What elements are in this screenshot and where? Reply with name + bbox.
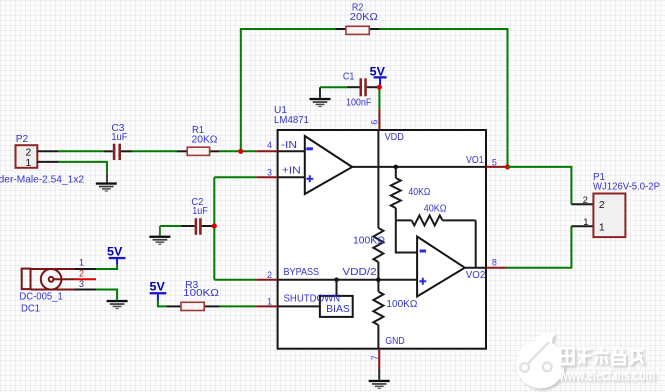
svg-text:1: 1 bbox=[267, 297, 272, 307]
wire 5V to R3 bbox=[158, 300, 166, 306]
pin 5 stub bbox=[486, 166, 505, 168]
wire R1 to junction bbox=[219, 150, 256, 152]
resistor R2 bbox=[336, 2, 380, 34]
wire: feedback top-right from R2 down to VO1 bbox=[380, 29, 508, 167]
pin 3 stub bbox=[256, 176, 277, 178]
wire R3 to SHUTDOWN bbox=[219, 305, 256, 307]
resistor 40K (vertical) bbox=[391, 167, 431, 221]
svg-text:VDD: VDD bbox=[385, 132, 404, 143]
svg-text:6: 6 bbox=[369, 120, 379, 125]
svg-text:5V: 5V bbox=[150, 281, 166, 294]
wire P2 pin2 to C3 bbox=[58, 150, 104, 152]
wire P2 pin1 down bbox=[58, 162, 107, 173]
svg-text:DC1: DC1 bbox=[21, 304, 40, 315]
capacitor C1 bbox=[320, 72, 378, 109]
BYPASS internal wire bbox=[278, 279, 418, 281]
svg-text:BIAS: BIAS bbox=[326, 304, 350, 315]
resistor 100K (upper) bbox=[353, 228, 385, 262]
resistor R3 bbox=[166, 280, 219, 311]
pin 3 lead bbox=[75, 289, 97, 291]
power 5V (DC1) bbox=[107, 246, 125, 265]
wire BIAS drop bbox=[336, 280, 338, 296]
node: C2 junction bbox=[212, 223, 217, 228]
ground (C1) bbox=[310, 87, 331, 107]
pin 1 stub bbox=[256, 305, 277, 307]
svg-text:www.elecfans.com: www.elecfans.com bbox=[559, 368, 655, 385]
wire pin3 to ground bbox=[96, 290, 117, 300]
wire: 5V node down to pin 6 bbox=[378, 87, 380, 109]
svg-text:1uF: 1uF bbox=[111, 132, 127, 143]
svg-text:40KΩ: 40KΩ bbox=[408, 187, 430, 198]
svg-text:1: 1 bbox=[26, 157, 32, 169]
node: C1/5V junction bbox=[377, 85, 382, 90]
svg-text:3: 3 bbox=[79, 279, 84, 289]
svg-text:20KΩ: 20KΩ bbox=[350, 12, 378, 23]
svg-text:100KΩ: 100KΩ bbox=[353, 236, 385, 247]
svg-text:P2: P2 bbox=[16, 134, 29, 145]
svg-text:3: 3 bbox=[267, 167, 272, 177]
resistor 40K (horizontal feedback) bbox=[396, 203, 476, 267]
op-amp U1 body bbox=[278, 130, 486, 349]
ground (C2) bbox=[149, 226, 170, 245]
connector P1 bbox=[571, 172, 660, 237]
wire 40K node down to opamp2 minus bbox=[396, 220, 417, 252]
connector P2 bbox=[0, 134, 84, 185]
pin 4 stub bbox=[256, 150, 277, 152]
svg-text:SHUTDOWN: SHUTDOWN bbox=[284, 294, 341, 305]
svg-text:VDD/2: VDD/2 bbox=[342, 267, 376, 278]
op-amp A1 bbox=[278, 136, 486, 194]
svg-text:+IN: +IN bbox=[282, 166, 301, 177]
svg-text:100nF: 100nF bbox=[346, 98, 371, 109]
svg-text:C1: C1 bbox=[343, 72, 355, 83]
wire: feedback top-left vertical from R1 junction up bbox=[241, 29, 336, 151]
svg-text:100KΩ: 100KΩ bbox=[386, 299, 417, 310]
node: opamp1 out / 40K bbox=[394, 165, 399, 170]
VDD bias divider vertical bbox=[377, 130, 379, 349]
watermark CJK text blobs bbox=[560, 348, 643, 365]
svg-text:8: 8 bbox=[492, 258, 497, 268]
svg-text:5V: 5V bbox=[370, 66, 386, 79]
SHUTDOWN internal wire bbox=[278, 305, 320, 307]
pin 7 stub bbox=[378, 349, 380, 369]
svg-text:1uF: 1uF bbox=[192, 206, 208, 217]
node: R1 / feedback junction bbox=[238, 149, 243, 154]
power 5V (R3) bbox=[150, 281, 167, 301]
pin 1 lead bbox=[75, 268, 97, 270]
svg-text:20KΩ: 20KΩ bbox=[192, 134, 218, 145]
wire pin1 to 5V bbox=[96, 265, 117, 269]
pin 6 stub bbox=[378, 110, 380, 131]
pin 2 stub bbox=[256, 279, 277, 281]
svg-text:2: 2 bbox=[599, 200, 605, 211]
wire VO1 to P1 pin2 bbox=[508, 167, 572, 204]
svg-text:DC-005_1: DC-005_1 bbox=[19, 292, 63, 303]
svg-text:1: 1 bbox=[583, 217, 588, 228]
svg-text:1: 1 bbox=[79, 258, 84, 268]
svg-text:VO1: VO1 bbox=[466, 155, 484, 166]
svg-text:4: 4 bbox=[267, 140, 272, 150]
svg-text:7: 7 bbox=[370, 355, 380, 360]
svg-text:BYPASS: BYPASS bbox=[284, 267, 320, 278]
svg-text:40KΩ: 40KΩ bbox=[424, 203, 447, 214]
BIAS block bbox=[320, 296, 353, 317]
svg-text:5: 5 bbox=[492, 158, 497, 168]
power 5V (at C1) bbox=[370, 66, 387, 86]
capacitor C3 bbox=[104, 123, 132, 160]
svg-text:Header-Male-2.54_1x2: Header-Male-2.54_1x2 bbox=[0, 174, 84, 185]
svg-text:2: 2 bbox=[267, 270, 272, 280]
ground (P2 pin1) bbox=[96, 173, 117, 192]
svg-text:100KΩ: 100KΩ bbox=[183, 288, 219, 299]
svg-text:GND: GND bbox=[385, 336, 404, 347]
resistor 100K (lower) bbox=[373, 292, 417, 325]
svg-text:VO2: VO2 bbox=[466, 270, 486, 281]
wire C3 to R1 bbox=[132, 150, 177, 152]
svg-text:-IN: -IN bbox=[281, 140, 297, 151]
pin 2 stub (n/c) bbox=[75, 278, 97, 280]
DC jack DC1 bbox=[19, 258, 84, 315]
op-amp A2 bbox=[417, 237, 486, 297]
watermark logo bbox=[516, 333, 564, 388]
capacitor C2 bbox=[160, 197, 212, 235]
wire: +IN / BYPASS vertical net bbox=[213, 177, 215, 279]
ground (DC1) bbox=[107, 300, 128, 309]
pin 8 stub bbox=[486, 267, 507, 269]
svg-text:2: 2 bbox=[583, 195, 588, 206]
resistor R1 bbox=[177, 125, 219, 155]
svg-text:WJ126V-5.0-2P: WJ126V-5.0-2P bbox=[593, 182, 660, 193]
svg-text:1: 1 bbox=[599, 222, 605, 233]
wire VO2 to P1 pin1 bbox=[507, 226, 572, 267]
ground (pin 7) bbox=[369, 369, 390, 389]
wire to +IN bbox=[214, 176, 256, 178]
svg-text:5V: 5V bbox=[107, 246, 123, 259]
node: BIAS tap bbox=[334, 277, 339, 282]
node: VO1 / feedback junction bbox=[505, 164, 510, 169]
wire to BYPASS bbox=[214, 279, 256, 281]
svg-text:LM4871: LM4871 bbox=[274, 115, 309, 126]
node: VDD/2 bbox=[376, 277, 381, 282]
